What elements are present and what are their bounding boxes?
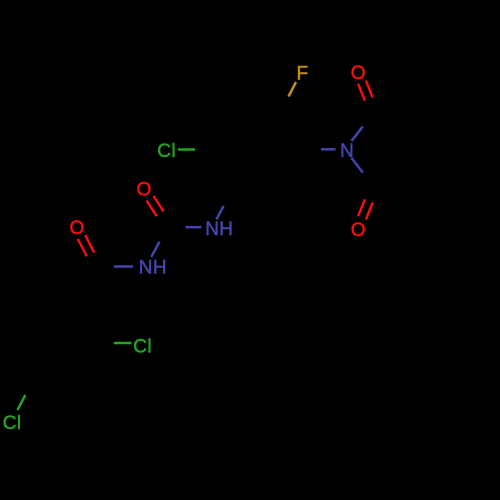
double bond C=O top (half, O color) line 1 [358, 84, 365, 101]
bond C-Cl para (half, Cl color) [18, 395, 26, 410]
double bond urea C=O (half, O color) line 1 [154, 196, 164, 212]
bond C-Cl (half, Cl color) [178, 148, 195, 150]
double bond benzoyl C=O (half, O color) line 2 [78, 239, 87, 257]
svg-text:O: O [351, 220, 366, 241]
svg-text:O: O [351, 63, 366, 84]
bond N-C(=O)top (half, N color) [352, 127, 363, 142]
svg-text:NH: NH [205, 219, 233, 240]
svg-text:Cl: Cl [133, 337, 152, 358]
bond C(urea)-NH2 (half, N color) [151, 242, 159, 257]
bond C(benzoyl)-NH2 (half, N color) [114, 265, 133, 267]
bond C-Cl ortho (half, Cl color) [114, 342, 132, 344]
svg-text:O: O [137, 180, 152, 201]
double bond benzoyl C=O (half, O color) line 1 [85, 235, 94, 253]
double bond C=O bottom (half, O color) line 2 [358, 199, 365, 216]
svg-text:F: F [297, 64, 309, 85]
double bond C=O top (half, O color) line 2 [366, 81, 373, 98]
svg-text:Cl: Cl [3, 413, 22, 434]
svg-text:Cl: Cl [157, 141, 176, 162]
bond Caryl-NH (half, N color) [216, 206, 223, 219]
bond C(urea)-NH (half, N color) [186, 226, 202, 228]
bond N-C(=O)bottom (half, N color) [352, 158, 363, 173]
svg-text:O: O [70, 218, 85, 239]
double bond urea C=O (half, O color) line 2 [147, 201, 157, 217]
bond Caryl-N (half, N color) [321, 148, 336, 150]
svg-text:NH: NH [139, 258, 167, 279]
double bond C=O bottom (half, O color) line 1 [366, 203, 373, 220]
bond C-F (half, F color) [289, 82, 297, 97]
